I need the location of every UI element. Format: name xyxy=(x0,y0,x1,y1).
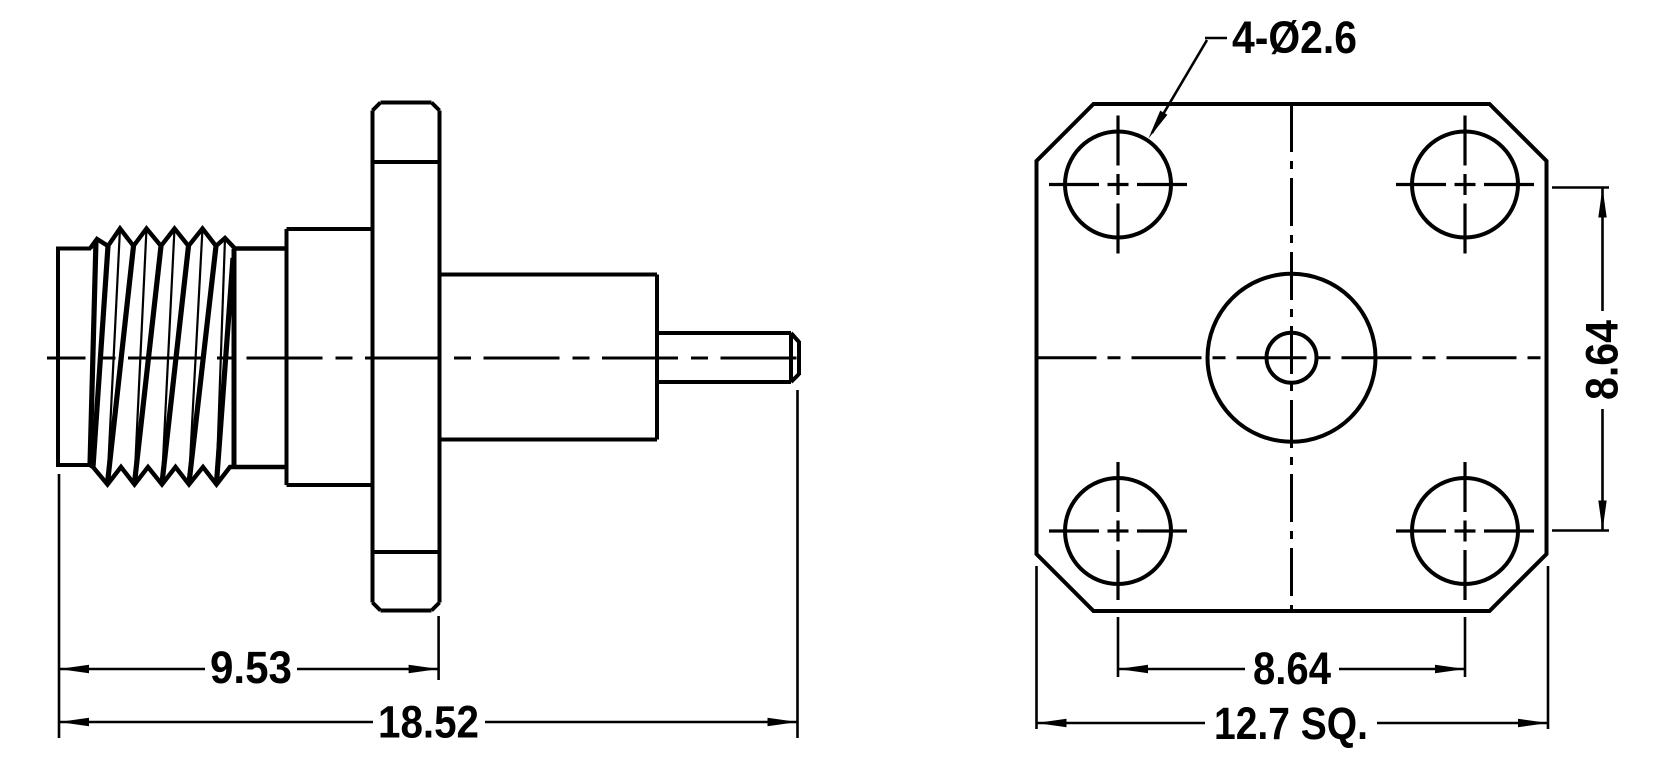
left view: nut rear body outline xyxy=(56,249,91,466)
mounting hole top-right center mark xyxy=(1396,116,1534,254)
left view: shoulder step section xyxy=(287,229,375,485)
thread profile top zigzag xyxy=(90,229,286,249)
svg-text:9.53: 9.53 xyxy=(210,642,292,693)
mounting hole bottom-right center mark xyxy=(1396,462,1534,600)
dimension 18.52 xyxy=(59,697,798,748)
vertical dimension 8.64 xyxy=(1552,188,1628,531)
mounting hole bottom-right circle xyxy=(1412,478,1518,584)
center contact circle xyxy=(1267,333,1317,383)
front view vertical centerline xyxy=(1290,104,1293,611)
dimension 12.7 SQ. xyxy=(1037,566,1549,749)
left view: rear body xyxy=(440,275,658,440)
svg-text:18.52: 18.52 xyxy=(378,697,479,748)
leader and label 4-Ø2.6 xyxy=(1149,12,1358,139)
extension line at nut left face xyxy=(58,474,61,738)
center insulator circle xyxy=(1208,274,1376,442)
svg-text:8.64: 8.64 xyxy=(1253,643,1331,694)
left view: flange xyxy=(373,103,440,611)
mounting hole bottom-left center mark xyxy=(1049,462,1187,600)
mounting hole top-left center mark xyxy=(1049,116,1187,254)
extension line at pin tip xyxy=(796,390,799,738)
left view: solder contact pin xyxy=(657,333,799,382)
left view centerline xyxy=(47,357,797,360)
thread profile bottom zigzag xyxy=(90,465,286,485)
front view: square flange outline with chamfered corners xyxy=(1037,104,1547,611)
svg-text:4-Ø2.6: 4-Ø2.6 xyxy=(1232,12,1357,63)
horizontal dimension 8.64 xyxy=(1118,617,1465,694)
thread helix flank lines xyxy=(90,229,234,484)
dimension 9.53 xyxy=(59,642,439,693)
mounting hole bottom-left circle xyxy=(1065,478,1171,584)
mounting hole top-left circle xyxy=(1065,132,1171,238)
mounting hole top-right circle xyxy=(1412,132,1518,238)
extension line at flange right face xyxy=(437,616,440,680)
svg-text:12.7 SQ.: 12.7 SQ. xyxy=(1214,698,1368,749)
svg-text:8.64: 8.64 xyxy=(1577,320,1628,400)
front view horizontal centerline xyxy=(1037,356,1541,359)
